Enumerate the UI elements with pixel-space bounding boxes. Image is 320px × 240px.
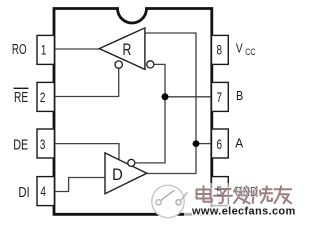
- svg-text:3: 3: [40, 136, 46, 152]
- svg-text:DE: DE: [13, 136, 28, 153]
- svg-text:2: 2: [40, 89, 46, 105]
- svg-text:8: 8: [217, 42, 223, 58]
- svg-text:GND: GND: [235, 186, 257, 199]
- svg-text:6: 6: [217, 136, 223, 152]
- svg-text:www.elecfans.com: www.elecfans.com: [191, 205, 296, 217]
- svg-text:A: A: [235, 136, 244, 150]
- svg-text:CC: CC: [245, 46, 255, 57]
- svg-text:RE: RE: [14, 90, 28, 106]
- svg-text:V: V: [236, 41, 243, 55]
- svg-text:R: R: [122, 41, 131, 59]
- svg-text:4: 4: [40, 184, 46, 200]
- svg-text:B: B: [236, 89, 243, 103]
- svg-text:DI: DI: [18, 183, 29, 200]
- svg-text:5: 5: [217, 184, 223, 200]
- svg-text:RO: RO: [12, 41, 27, 57]
- svg-text:D: D: [112, 166, 123, 184]
- svg-text:7: 7: [217, 89, 223, 105]
- svg-text:1: 1: [41, 42, 47, 58]
